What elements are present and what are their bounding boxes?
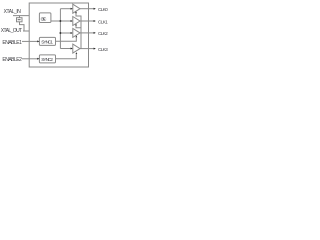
- svg-text:CLK1: CLK1: [98, 19, 108, 24]
- svg-text:SYNC2: SYNC2: [41, 57, 53, 62]
- svg-text:ENABLE2: ENABLE2: [2, 57, 22, 63]
- svg-text:CLK0: CLK0: [98, 7, 108, 12]
- svg-text:OSC: OSC: [41, 16, 47, 21]
- svg-text:CLK3: CLK3: [98, 47, 108, 52]
- svg-text:CLK2: CLK2: [98, 31, 108, 36]
- svg-text:XTAL_OUT: XTAL_OUT: [1, 28, 22, 34]
- svg-text:SYNC1: SYNC1: [41, 40, 53, 45]
- svg-text:XTAL_IN: XTAL_IN: [4, 9, 22, 15]
- svg-text:ENABLE1: ENABLE1: [2, 40, 22, 46]
